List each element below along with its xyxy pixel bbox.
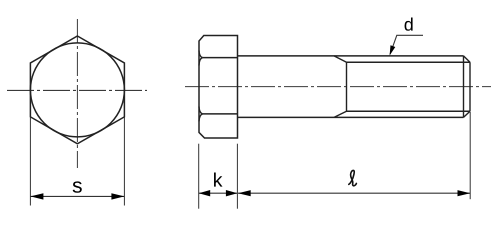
label s bbox=[73, 181, 82, 192]
head face line upper bbox=[203, 57, 238, 59]
k extension line left bbox=[198, 144, 200, 209]
label k bbox=[214, 172, 222, 186]
vertical centerline bbox=[76, 19, 78, 168]
arrowhead left (s) bbox=[30, 193, 43, 199]
extension line right (s) bbox=[123, 118, 125, 206]
end face vertical bbox=[469, 62, 471, 111]
arrowhead k left bbox=[199, 190, 211, 196]
shank bottom line bbox=[238, 116, 464, 118]
inscribed circle bbox=[30, 43, 124, 137]
dimension line s bbox=[30, 195, 124, 197]
end chamfer slant top bbox=[464, 56, 471, 62]
thread minor line bottom bbox=[347, 110, 471, 112]
dimension line l bbox=[238, 192, 470, 194]
dimension line k bbox=[199, 192, 238, 194]
label l (script ell) bbox=[349, 170, 357, 185]
arrowhead right (s) bbox=[111, 193, 124, 199]
thread minor line top bbox=[347, 61, 471, 63]
head chamfer arc upper pair bbox=[199, 51, 203, 66]
label d bbox=[405, 18, 413, 31]
head chamfer arc lower pair bbox=[199, 107, 203, 122]
thread runout slant bottom bbox=[334, 111, 347, 117]
hex head outline (across corners, pointy top) bbox=[30, 36, 124, 144]
arrowhead l right bbox=[458, 190, 471, 196]
bolt centerline bbox=[185, 86, 491, 88]
leader line for d bbox=[390, 35, 423, 54]
leader arrowhead d bbox=[390, 45, 396, 55]
k extension line right bbox=[236, 144, 238, 209]
head face line lower bbox=[203, 113, 238, 115]
thread runout slant top bbox=[334, 56, 347, 62]
thread start vertical bbox=[346, 62, 348, 111]
extension line left (s) bbox=[29, 118, 31, 206]
head side outline bbox=[199, 36, 238, 139]
arrowhead k right bbox=[226, 190, 238, 196]
end chamfer vertical bbox=[463, 56, 465, 118]
end chamfer slant bottom bbox=[464, 111, 471, 117]
shank top line bbox=[238, 55, 464, 57]
l extension line right bbox=[469, 112, 471, 199]
arrowhead l left bbox=[238, 190, 251, 196]
horizontal centerline bbox=[7, 89, 147, 91]
